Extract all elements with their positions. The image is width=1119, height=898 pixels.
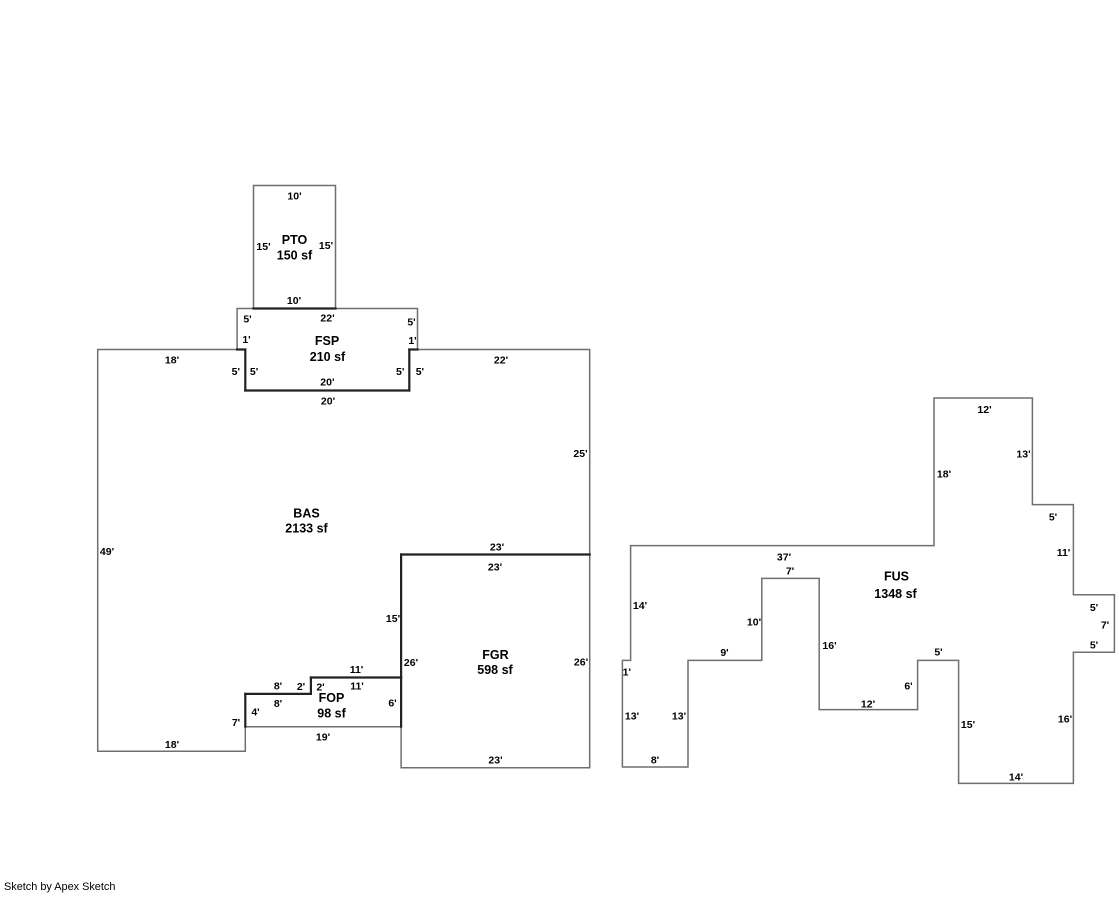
svg-text:5': 5' [1090, 602, 1098, 614]
svg-text:5': 5' [243, 313, 251, 325]
svg-text:12': 12' [861, 698, 875, 710]
svg-text:7': 7' [786, 565, 794, 577]
svg-text:9': 9' [720, 647, 728, 659]
wall FSP left jog / BAS top (1') [237, 348, 245, 350]
svg-text:210 sf: 210 sf [310, 350, 346, 364]
svg-text:5': 5' [407, 316, 415, 328]
svg-text:15': 15' [319, 240, 333, 252]
svg-text:14': 14' [633, 600, 647, 612]
svg-text:13': 13' [1016, 448, 1030, 460]
svg-text:FSP: FSP [315, 334, 339, 348]
svg-text:10': 10' [747, 616, 761, 628]
svg-text:1': 1' [408, 335, 416, 347]
svg-text:1': 1' [242, 334, 250, 346]
svg-text:5': 5' [232, 366, 240, 378]
svg-text:15': 15' [256, 241, 270, 253]
svg-text:16': 16' [822, 640, 836, 652]
area BAS (basement) outline [98, 350, 590, 752]
svg-text:5': 5' [396, 366, 404, 378]
svg-text:18': 18' [165, 354, 179, 366]
svg-text:6': 6' [904, 680, 912, 692]
svg-text:22': 22' [494, 354, 508, 366]
area PTO (patio) outline [254, 186, 336, 309]
wall FSP lower-right / BAS notch right (5') [408, 350, 410, 391]
svg-text:19': 19' [316, 731, 330, 743]
svg-text:Sketch by Apex Sketch: Sketch by Apex Sketch [4, 881, 115, 893]
svg-text:12': 12' [977, 404, 991, 416]
svg-text:11': 11' [350, 680, 364, 692]
wall FOP right / FGR left (6') [400, 678, 402, 727]
svg-text:49': 49' [100, 546, 114, 558]
wall FOP upper-left / BAS (8') [245, 693, 311, 695]
svg-text:FOP: FOP [319, 691, 345, 705]
svg-text:26': 26' [404, 657, 418, 669]
svg-text:PTO: PTO [282, 233, 308, 247]
svg-text:1348 sf: 1348 sf [874, 587, 917, 601]
svg-text:5': 5' [1049, 511, 1057, 523]
svg-text:598 sf: 598 sf [477, 663, 513, 677]
area FUS (upper story) outline [622, 398, 1114, 783]
svg-text:23': 23' [490, 541, 504, 553]
svg-text:BAS: BAS [293, 506, 319, 520]
area FOP (open porch) outline [245, 678, 401, 727]
svg-text:13': 13' [625, 710, 639, 722]
svg-text:10': 10' [287, 295, 301, 307]
svg-text:150 sf: 150 sf [277, 248, 313, 262]
svg-text:20': 20' [320, 376, 334, 388]
svg-text:11': 11' [350, 664, 364, 676]
area FSP (porch) outline [237, 309, 417, 391]
svg-text:23': 23' [488, 561, 502, 573]
svg-text:98 sf: 98 sf [317, 706, 346, 720]
svg-text:8': 8' [651, 754, 659, 766]
svg-text:2': 2' [297, 681, 305, 693]
svg-text:FGR: FGR [482, 648, 508, 662]
svg-text:16': 16' [1058, 713, 1072, 725]
svg-text:5': 5' [1090, 639, 1098, 651]
svg-text:5': 5' [934, 646, 942, 658]
svg-text:20': 20' [321, 395, 335, 407]
svg-text:4': 4' [251, 706, 259, 718]
svg-text:FUS: FUS [884, 569, 909, 583]
wall FSP right jog / BAS top (1') [409, 348, 417, 350]
svg-text:22': 22' [320, 312, 334, 324]
wall FSP lower-left / BAS notch left (5') [244, 350, 246, 391]
svg-text:23': 23' [488, 754, 502, 766]
area FGR (garage) outline [401, 555, 590, 768]
svg-text:15': 15' [386, 613, 400, 625]
wall FGR top / BAS (23') [401, 553, 590, 555]
svg-text:26': 26' [574, 656, 588, 668]
svg-text:18': 18' [165, 739, 179, 751]
svg-text:6': 6' [388, 697, 396, 709]
wall FOP step / BAS (2') [310, 678, 312, 694]
svg-text:25': 25' [573, 448, 587, 460]
svg-text:5': 5' [250, 366, 258, 378]
wall FGR left upper / BAS (15') [400, 555, 402, 678]
svg-text:13': 13' [672, 710, 686, 722]
svg-text:18': 18' [937, 468, 951, 480]
svg-text:1': 1' [623, 667, 631, 679]
svg-text:10': 10' [287, 190, 301, 202]
svg-text:14': 14' [1009, 771, 1023, 783]
svg-text:5': 5' [416, 366, 424, 378]
svg-text:8': 8' [274, 680, 282, 692]
wall FOP left / BAS (4') [244, 694, 246, 727]
wall FSP bottom / BAS notch bottom (20') [245, 389, 409, 391]
svg-text:2133 sf: 2133 sf [285, 521, 328, 535]
svg-text:8': 8' [274, 698, 282, 710]
wall FOP top / BAS (11') [311, 676, 401, 678]
svg-text:7': 7' [1101, 619, 1109, 631]
svg-text:11': 11' [1057, 547, 1071, 559]
svg-text:15': 15' [961, 719, 975, 731]
svg-text:37': 37' [777, 551, 791, 563]
wall PTO bottom / FSP top (10') [254, 307, 336, 309]
svg-text:7': 7' [232, 717, 240, 729]
